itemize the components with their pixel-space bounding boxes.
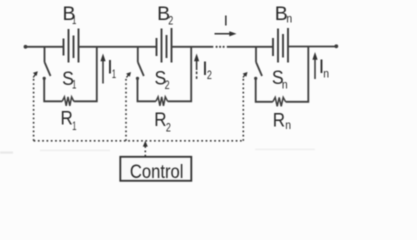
wire cell2 left lead <box>137 47 139 62</box>
label R2 <box>154 109 171 134</box>
wire main segment A (left terminal to B1) <box>25 46 63 48</box>
switch Sn <box>254 62 262 80</box>
label I1 <box>107 57 116 81</box>
svg-text:n: n <box>323 67 329 81</box>
control dotted bus horizontal <box>34 78 244 157</box>
battery Bn <box>273 28 288 63</box>
wire main segment D (break to Bn) <box>227 46 273 48</box>
control arrowhead to S2 <box>126 72 131 78</box>
current arrow I (top, series current) <box>215 31 237 36</box>
svg-text:Control: Control <box>130 161 184 183</box>
wire main segment B (B1 to B2) <box>79 46 156 48</box>
wire cell1 left lead <box>44 47 46 62</box>
control arrowhead at stub <box>143 141 148 147</box>
svg-text:2: 2 <box>166 120 171 134</box>
resistor Rn <box>273 97 286 106</box>
control dotted riser 1 <box>33 78 35 141</box>
wire celln left lead <box>255 47 257 62</box>
wire cell1 lower-left lead <box>44 80 62 102</box>
label S1 <box>62 68 77 91</box>
switch S1 <box>43 62 51 80</box>
svg-text:R: R <box>154 109 166 131</box>
label S2 <box>155 67 170 92</box>
label Rn <box>273 110 291 133</box>
node right terminal <box>334 44 338 48</box>
resistor R1 <box>62 97 74 106</box>
svg-text:1: 1 <box>72 77 77 91</box>
svg-text:n: n <box>286 12 292 26</box>
wire break continuation dots <box>216 46 225 48</box>
control arrowhead to S1 <box>33 71 38 77</box>
label In <box>319 56 329 81</box>
wire celln bottom-right + right branch <box>286 47 309 102</box>
svg-text:2: 2 <box>165 78 170 92</box>
control arrowhead to Sn <box>243 72 248 78</box>
wire cell1 bottom-right + right branch <box>74 47 97 102</box>
svg-text:R: R <box>61 108 73 130</box>
label Sn <box>272 67 288 91</box>
svg-text:1: 1 <box>112 67 117 81</box>
wire cell2 bottom-right + right branch <box>168 47 192 102</box>
switch S2 <box>136 62 144 80</box>
battery B1 <box>64 29 79 63</box>
control dotted riser n <box>242 78 244 141</box>
control box <box>120 157 191 181</box>
svg-text:R: R <box>273 110 285 132</box>
control dotted stub to box <box>144 146 146 157</box>
current arrow In <box>312 52 317 79</box>
label B1 <box>62 3 76 27</box>
svg-text:2: 2 <box>207 68 212 82</box>
svg-text:n: n <box>285 118 291 132</box>
label B2 <box>157 3 173 28</box>
svg-text:1: 1 <box>72 13 77 27</box>
label I2 <box>202 58 212 82</box>
node left terminal <box>24 45 28 49</box>
resistor R2 <box>156 97 168 106</box>
current arrow I1 <box>100 54 105 84</box>
svg-text:2: 2 <box>168 14 173 28</box>
label Bn <box>275 3 292 26</box>
svg-text:I: I <box>224 13 228 30</box>
control dotted riser 2 <box>125 78 127 141</box>
svg-text:1: 1 <box>72 119 77 133</box>
label R1 <box>61 108 77 134</box>
svg-text:n: n <box>282 77 288 91</box>
wire main segment E (Bn to right terminal) <box>289 46 337 48</box>
wire main segment C (B2 to break) <box>172 46 213 48</box>
wire cell2 lower-left lead <box>138 80 156 102</box>
wire celln lower-left lead <box>256 80 273 102</box>
battery B2 <box>157 28 172 63</box>
current arrow I2 <box>194 54 199 82</box>
